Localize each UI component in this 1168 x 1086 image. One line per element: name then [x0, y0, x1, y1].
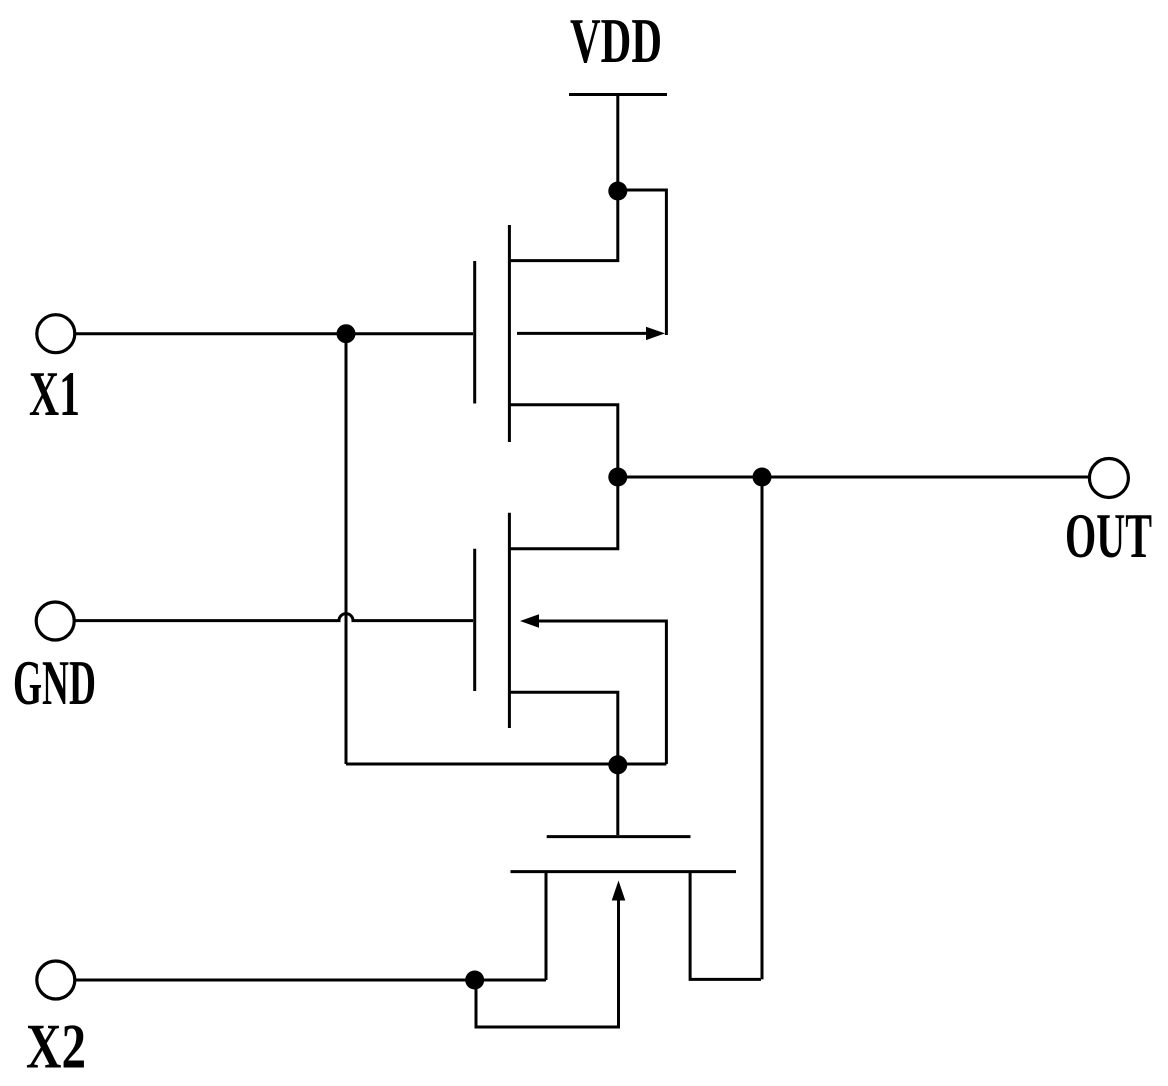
transistor M1 gate bar	[473, 261, 476, 404]
node X1 gate junction	[337, 324, 356, 343]
wire VDD rail down to drain junction	[616, 95, 619, 192]
wire junction right branch to M1 body	[618, 190, 667, 335]
transistor M1 drain wire	[509, 191, 617, 261]
transistor M1 body arrow (points right)	[646, 327, 665, 340]
wire M3 gate feed	[616, 765, 619, 835]
transistor M3 drain wire	[690, 872, 761, 980]
transistor M3 body wire	[476, 888, 619, 1027]
wire output node to OUT terminal	[618, 476, 1090, 479]
transistor M2 source wire	[509, 692, 617, 765]
node M2 source M3 gate junction	[608, 755, 627, 774]
svg-text:X1: X1	[29, 359, 80, 429]
transistor M2 drain wire	[509, 477, 617, 549]
wire X2 to M3 source	[75, 979, 546, 982]
transistor M3 gate bar	[547, 835, 691, 838]
terminal X1	[37, 315, 75, 353]
wire X1 to M1 gate	[75, 332, 473, 335]
transistor M2 gate bar	[473, 549, 476, 691]
wire X1 junction down to bottom node	[345, 334, 348, 764]
wire OUT branch down to M3 drain	[761, 477, 764, 979]
terminal GND	[36, 602, 74, 640]
transistor M3 body arrow (points up)	[612, 881, 626, 901]
transistor M2 channel bar	[508, 513, 511, 728]
transistor M2 body wire	[538, 621, 666, 764]
VDD power rail	[569, 93, 667, 96]
transistor M1 source wire	[509, 405, 617, 477]
transistor M2 body arrow (points left)	[520, 614, 539, 627]
node OUT branch	[753, 468, 772, 487]
transistor M1 channel bar	[508, 225, 511, 442]
transistor M3 channel bar	[511, 870, 737, 873]
terminal X2	[37, 961, 75, 999]
svg-text:X2: X2	[26, 1012, 86, 1082]
node X2 body junction	[465, 971, 484, 990]
wire GND to M2 gate with hop over X1 line	[75, 614, 474, 621]
svg-text:VDD: VDD	[570, 6, 662, 76]
node OUT junction	[608, 468, 627, 487]
transistor M3 source wire	[545, 872, 548, 980]
node M1 drain junction	[608, 182, 627, 201]
transistor M1 body wire	[517, 332, 648, 335]
terminal OUT	[1089, 459, 1128, 498]
svg-text:GND: GND	[13, 648, 96, 718]
svg-text:OUT: OUT	[1065, 501, 1152, 571]
wire bottom node horizontal	[346, 763, 666, 766]
